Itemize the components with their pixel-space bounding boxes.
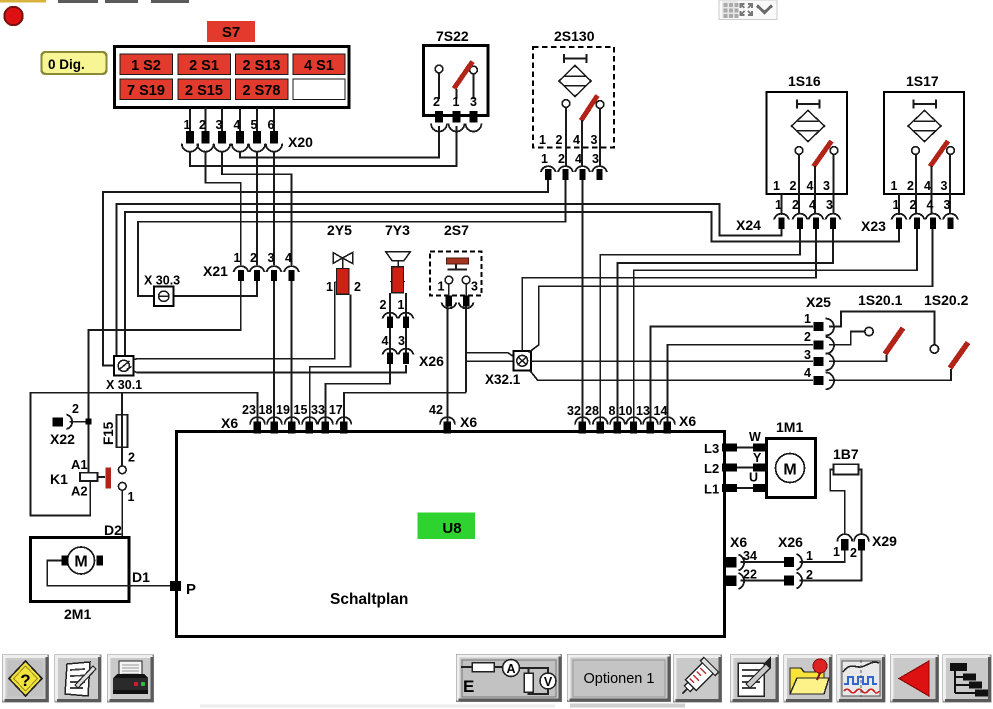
svg-text:D1: D1 bbox=[132, 569, 150, 585]
svg-text:X 30.1: X 30.1 bbox=[106, 378, 142, 392]
7Y3 pin labels 2 1 bbox=[380, 298, 405, 312]
svg-text:23: 23 bbox=[242, 403, 256, 417]
label D1 bbox=[132, 569, 150, 585]
wire X21.1 down to K1 branch bbox=[89, 281, 241, 472]
U8 terminal X6.22 bbox=[726, 568, 757, 590]
svg-text:1: 1 bbox=[539, 133, 546, 147]
1S17 actuator T bar bbox=[914, 100, 937, 109]
connector X20 pin 2 bbox=[197, 118, 213, 152]
toolbar button oscilloscope bbox=[837, 655, 885, 702]
label X6 bottom right bbox=[730, 534, 747, 550]
top toolbar strip gray button remnant 1 bbox=[58, 0, 98, 3]
label X30.1 bbox=[106, 378, 142, 392]
label X26 bottom bbox=[778, 534, 803, 550]
1M1 terminal Y bbox=[753, 451, 767, 472]
2S7 pin labels 1 3 bbox=[438, 280, 479, 294]
connector 7Y3 pin 1 bbox=[399, 313, 414, 328]
1S16 diamond symbol bbox=[792, 111, 825, 142]
wire X6.13 to X25.1 bbox=[651, 327, 814, 425]
wire X32.1 bottomright to X25.4 bbox=[529, 370, 813, 381]
wire L1 to 1M1.U bbox=[737, 487, 753, 489]
wire X26.4 to X6 pin33 bbox=[326, 364, 391, 424]
svg-text:17: 17 bbox=[329, 403, 343, 417]
7S22 red switch lever bbox=[454, 62, 473, 100]
svg-text:4: 4 bbox=[285, 251, 292, 265]
label X23 bbox=[861, 218, 886, 234]
svg-text:2S130: 2S130 bbox=[554, 28, 595, 44]
S7 cell 2S13 bbox=[236, 54, 289, 75]
wire X21.4 down to X6 pin19 bbox=[291, 281, 293, 424]
svg-text:7Y3: 7Y3 bbox=[385, 222, 410, 238]
U8 terminal X6.34 bbox=[726, 549, 757, 571]
svg-text:0 Dig.: 0 Dig. bbox=[48, 57, 85, 72]
X6 pin 15 bbox=[294, 403, 317, 434]
connector X26 pin 2 bottom bbox=[784, 568, 813, 589]
svg-text:W: W bbox=[749, 430, 761, 444]
svg-text:2: 2 bbox=[72, 402, 79, 416]
label 1S17 bbox=[906, 73, 939, 89]
wire 2Y5.2 to X6 pin15 bbox=[310, 295, 351, 425]
wire X20.2 to X21.1 bbox=[206, 152, 241, 265]
wire X32.1 right to X25.3 bbox=[531, 360, 813, 362]
wire X24.2 to X6 pin28 bbox=[600, 229, 800, 424]
connector X26 pin 1 bottom bbox=[784, 549, 813, 570]
svg-text:2: 2 bbox=[354, 280, 361, 294]
2S130 contact circle pin2 bbox=[562, 100, 570, 167]
connector X23 pin 3 bbox=[943, 214, 958, 229]
X6 pin 42 bbox=[429, 403, 455, 434]
svg-text:M: M bbox=[783, 462, 796, 479]
label A1 bbox=[71, 457, 88, 472]
svg-text:1: 1 bbox=[806, 549, 813, 563]
wire X20.5 to X21.2 bbox=[256, 152, 258, 265]
wire X6.22 to X26.2 bbox=[741, 580, 785, 582]
connector X24 pin 1 bbox=[774, 214, 789, 229]
svg-text:3: 3 bbox=[826, 198, 833, 212]
svg-text:D2: D2 bbox=[104, 522, 122, 538]
connector X20 pin 5 bbox=[249, 118, 265, 152]
wire X23.2 to X6 pin10 bbox=[634, 229, 917, 424]
svg-text:7S22: 7S22 bbox=[436, 28, 469, 44]
wire X30.1 to X26.3 via 7Y3 branch bbox=[134, 365, 407, 373]
svg-text:5: 5 bbox=[251, 118, 258, 132]
label 1S16 bbox=[788, 73, 821, 89]
svg-text:3: 3 bbox=[944, 198, 951, 212]
svg-text:2M1: 2M1 bbox=[64, 606, 91, 622]
svg-text:3: 3 bbox=[592, 152, 599, 166]
top toolbar strip gray button remnant 2 bbox=[105, 0, 138, 3]
svg-text:2Y5: 2Y5 bbox=[327, 222, 352, 238]
wire X20.6 to X21.3 bbox=[273, 152, 275, 265]
svg-text:15: 15 bbox=[294, 403, 308, 417]
wire L3 to 1M1.W bbox=[737, 447, 753, 449]
label X6 mid bbox=[460, 414, 477, 430]
wire X20.3 to X21.4 bbox=[222, 152, 292, 265]
switch 7S22 box bbox=[424, 46, 489, 116]
relay K1 contact circle 1 bbox=[118, 482, 134, 504]
svg-text:2: 2 bbox=[199, 118, 206, 132]
wire 2S7.1 to X6 pin42 bbox=[447, 307, 449, 425]
svg-text:L3: L3 bbox=[704, 441, 719, 456]
svg-text:1M1: 1M1 bbox=[776, 419, 803, 435]
label X22 bbox=[50, 431, 75, 447]
valve 2Y5 bowtie symbol bbox=[333, 253, 353, 269]
svg-text:1S20.2: 1S20.2 bbox=[924, 292, 969, 308]
1S16 pin1 stub bbox=[781, 194, 783, 215]
svg-text:Schaltplan: Schaltplan bbox=[330, 591, 408, 608]
wire X22 to K1 junction bbox=[70, 421, 89, 423]
X6 pin 18 bbox=[259, 403, 282, 434]
connector X26 pin 4 bbox=[383, 349, 398, 364]
motor 2M1 box bbox=[31, 537, 130, 601]
svg-text:33: 33 bbox=[311, 403, 325, 417]
X6 pin 14 bbox=[654, 404, 675, 434]
connector pin 2S7-1 bbox=[442, 296, 457, 309]
toolbar button syringe bbox=[674, 655, 722, 702]
svg-text:4: 4 bbox=[809, 198, 816, 212]
svg-text:13: 13 bbox=[636, 404, 650, 418]
svg-text:7 S19: 7 S19 bbox=[127, 83, 165, 99]
7S22 pin labels 2 1 3 bbox=[433, 95, 477, 109]
X6 pin 8 bbox=[609, 404, 625, 434]
U8 terminal L1 bbox=[722, 484, 737, 492]
label U8 green tag bbox=[418, 513, 476, 540]
label X24 bbox=[736, 217, 761, 233]
svg-text:X26: X26 bbox=[778, 534, 803, 550]
1S16 red switch lever bbox=[814, 141, 832, 213]
svg-text:22: 22 bbox=[743, 568, 757, 582]
svg-text:4: 4 bbox=[575, 152, 582, 166]
svg-text:2: 2 bbox=[804, 330, 811, 344]
7S22 contact circle pin3 bbox=[470, 66, 478, 99]
pressure switch 1S17 box bbox=[884, 92, 964, 194]
wire X24.3 to X6 pin8 bbox=[618, 229, 834, 424]
svg-text:2: 2 bbox=[128, 451, 135, 465]
svg-text:8: 8 bbox=[609, 404, 616, 418]
svg-text:1: 1 bbox=[541, 152, 548, 166]
svg-text:2: 2 bbox=[910, 198, 917, 212]
label X6 right group bbox=[679, 413, 696, 429]
svg-text:6: 6 bbox=[268, 118, 275, 132]
svg-text:2: 2 bbox=[792, 198, 799, 212]
svg-text:4: 4 bbox=[804, 366, 811, 380]
label 2S130 bbox=[554, 28, 595, 44]
svg-text:4: 4 bbox=[573, 133, 580, 147]
2S7 contact circle 1 bbox=[445, 276, 453, 297]
0 Dig. yellow indicator bbox=[42, 52, 107, 74]
svg-text:4: 4 bbox=[382, 334, 389, 348]
svg-text:4: 4 bbox=[927, 198, 934, 212]
connector X25 pin 2 bbox=[804, 330, 834, 354]
label X29 bbox=[872, 533, 897, 549]
connector pin 7S22-3 bbox=[466, 111, 482, 132]
1S16 contact circle pin2 bbox=[795, 147, 803, 213]
connector pin 2S130-3 bbox=[592, 166, 607, 180]
label 2S7 bbox=[444, 222, 469, 238]
wire bus3 X23.1 to X30.1 top bbox=[125, 212, 899, 356]
svg-text:M: M bbox=[74, 554, 87, 571]
svg-text:X6: X6 bbox=[460, 414, 477, 430]
connector pin 2S130-1 bbox=[541, 166, 556, 180]
connector pin 7S22-2 bbox=[431, 111, 447, 132]
svg-text:A2: A2 bbox=[71, 484, 88, 499]
wire X25.3 tail to 1S20.1 lever bbox=[829, 355, 887, 361]
red status circle bbox=[4, 7, 22, 25]
svg-text:1: 1 bbox=[773, 179, 780, 193]
2Y5 pin labels 1 2 bbox=[326, 280, 361, 294]
X6 pin 17 bbox=[329, 403, 351, 434]
svg-text:X29: X29 bbox=[872, 533, 897, 549]
valve 7Y3 funnel symbol bbox=[386, 252, 411, 268]
wire bus1 2S130.1 to X30.1 left bbox=[103, 180, 548, 366]
svg-text:U8: U8 bbox=[442, 520, 461, 537]
svg-text:32: 32 bbox=[567, 404, 581, 418]
2S130 inner pin labels 1 2 4 3 bbox=[539, 133, 598, 147]
connector X23 pin 2 bbox=[910, 214, 925, 229]
svg-text:1: 1 bbox=[184, 118, 191, 132]
wire X6.17 to X32.1 riser bbox=[344, 393, 466, 424]
wire X26.2 to X29.2 bbox=[800, 551, 862, 581]
svg-text:E: E bbox=[463, 677, 474, 696]
svg-text:X26: X26 bbox=[419, 353, 444, 369]
svg-text:34: 34 bbox=[743, 549, 757, 563]
X6 pin 28 bbox=[585, 404, 608, 434]
connector X22 pin 2 bbox=[53, 402, 80, 429]
svg-text:18: 18 bbox=[259, 403, 273, 417]
connector pin 2S130-2 bbox=[558, 166, 573, 180]
svg-text:1: 1 bbox=[804, 312, 811, 326]
svg-text:1B7: 1B7 bbox=[833, 446, 859, 462]
svg-text:1S16: 1S16 bbox=[788, 73, 821, 89]
svg-text:F15: F15 bbox=[101, 421, 116, 445]
top right widget box bbox=[719, 0, 777, 20]
connector X21 pin 4 bbox=[284, 251, 299, 281]
label 7S22 bbox=[436, 28, 469, 44]
svg-text:3: 3 bbox=[941, 179, 948, 193]
2S130 contact circle pin3 bbox=[596, 101, 604, 167]
svg-text:2S7: 2S7 bbox=[444, 222, 469, 238]
X6 pin 19 bbox=[276, 403, 299, 434]
S7 empty white cell bbox=[293, 79, 345, 100]
switch unit S7 outer box bbox=[115, 47, 350, 108]
7S22 contact circle pin2 bbox=[435, 65, 443, 99]
wire X6.34 to X26.1 bbox=[741, 561, 785, 563]
wire X25.4 tail to 1S20.2 lever bbox=[829, 369, 951, 380]
wire X26.1 to X29.1 bbox=[800, 551, 845, 563]
svg-text:3: 3 bbox=[591, 133, 598, 147]
connector X23 pin 1 bbox=[892, 214, 907, 229]
wire X21.3 down to X6 pin18 bbox=[273, 281, 275, 424]
svg-text:4: 4 bbox=[807, 179, 814, 193]
svg-text:14: 14 bbox=[654, 404, 668, 418]
fuse F15 bbox=[116, 393, 127, 466]
pressure switch 1S16 box bbox=[767, 92, 848, 194]
toolbar button notes bbox=[55, 655, 101, 702]
svg-text:4 S1: 4 S1 bbox=[304, 58, 334, 74]
connector X21 pin 3 bbox=[267, 251, 282, 281]
2S130 actuator T bar bbox=[564, 54, 587, 63]
top toolbar strip yellow remnant bbox=[0, 0, 46, 3]
connector X20 pin 6 bbox=[266, 118, 282, 152]
svg-text:3: 3 bbox=[804, 348, 811, 362]
S7 cell 4S1 bbox=[293, 54, 345, 75]
wire X6.14 to X25.2 bbox=[668, 345, 814, 424]
connector X20 pin 3 bbox=[214, 118, 230, 152]
ECU U8 box bbox=[177, 432, 725, 637]
svg-text:3: 3 bbox=[470, 95, 477, 109]
svg-text:A: A bbox=[506, 662, 515, 676]
X6 pin 10 bbox=[619, 404, 642, 434]
wire 1B7 left to X29.1 bbox=[830, 470, 845, 536]
svg-text:2: 2 bbox=[907, 179, 914, 193]
X6 pin 13 bbox=[636, 404, 658, 434]
svg-text:2: 2 bbox=[790, 179, 797, 193]
label K1 bbox=[50, 471, 68, 487]
label X20 bbox=[288, 134, 313, 150]
connector X24 pin 4 bbox=[809, 214, 824, 229]
svg-text:1 S2: 1 S2 bbox=[131, 58, 161, 74]
label D2 bbox=[104, 522, 122, 538]
connector pin 7S22-1 bbox=[449, 111, 465, 132]
wire L2 to 1M1.Y bbox=[737, 467, 753, 469]
connector X24 pin 3 bbox=[826, 214, 841, 229]
label 1M1 bbox=[776, 419, 803, 435]
motor 2M1 terminal right bbox=[97, 556, 104, 566]
solenoid coil 7Y3 bbox=[390, 267, 405, 293]
S7 cell 2S15 bbox=[178, 79, 231, 100]
wire X30.1 to 2Y5.1 bbox=[134, 282, 335, 360]
sensor 1B7 box bbox=[834, 464, 859, 474]
connector X26 pin 3 bbox=[399, 349, 414, 364]
connector pin 2S7-3 bbox=[459, 296, 474, 309]
thermo switch 2S7 dashed box bbox=[430, 252, 482, 296]
1S17 inner pin labels bbox=[891, 179, 948, 193]
splice X30.3 box bbox=[154, 287, 174, 307]
toolbar button folder bbox=[784, 655, 832, 702]
svg-text:K1: K1 bbox=[50, 471, 68, 487]
connector X29 pin 1 bbox=[833, 534, 852, 559]
label A2 bbox=[71, 484, 88, 499]
label 7Y3 bbox=[385, 222, 410, 238]
1S17 red switch lever bbox=[930, 141, 948, 213]
wire bus2 X24.1 to X30.1 top bbox=[117, 204, 782, 356]
svg-text:2 S1: 2 S1 bbox=[189, 58, 219, 74]
svg-text:S7: S7 bbox=[222, 24, 240, 41]
junction node X22/K1 bbox=[86, 419, 92, 425]
splice X30.1 box bbox=[114, 356, 134, 376]
top right grid icon bbox=[722, 1, 739, 18]
connector X21 pin 2 bbox=[250, 251, 265, 281]
label X6 left group bbox=[221, 415, 238, 431]
1S16 inner pin labels bbox=[773, 179, 830, 193]
wire X32.1 top to X24.4 bbox=[522, 229, 816, 351]
toolbar button back arrow bbox=[891, 655, 939, 702]
connector X25 pin 4 bbox=[804, 366, 834, 389]
connector X25 pin 3 bbox=[804, 348, 834, 370]
label X25 bbox=[806, 294, 831, 310]
svg-text:19: 19 bbox=[276, 403, 290, 417]
label 1B7 bbox=[833, 446, 859, 462]
svg-text:X6: X6 bbox=[730, 534, 747, 550]
svg-text:P: P bbox=[186, 581, 196, 598]
X6 pin 32 bbox=[567, 404, 590, 434]
toolbar button tree view bbox=[943, 655, 991, 702]
2S130 outer pin labels 1 2 4 3 bbox=[541, 152, 599, 166]
svg-text:1: 1 bbox=[234, 251, 241, 265]
connector X24 pin 2 bbox=[793, 214, 808, 229]
wire X32.1 topright to X23.4 bbox=[529, 229, 933, 353]
connector X21 pin 1 bbox=[234, 251, 249, 281]
wire 2S130.4 to X6 pin32 bbox=[582, 180, 584, 424]
1S17 pin1 stub bbox=[898, 194, 900, 215]
relay K1 red actuator bar bbox=[106, 468, 112, 489]
svg-text:28: 28 bbox=[585, 404, 599, 418]
connector pin 2S130-4 bbox=[575, 166, 590, 180]
top right chevron-down icon bbox=[757, 6, 772, 13]
label L2 bbox=[704, 461, 719, 476]
label 2M1 bbox=[64, 606, 91, 622]
motor 1M1 M circle bbox=[776, 454, 805, 483]
svg-text:A1: A1 bbox=[71, 457, 88, 472]
switch 1S20.2 contact circle bbox=[930, 345, 938, 353]
wire stubs S7 box to X20 pins bbox=[190, 108, 274, 132]
wire K1 contact to 2M1 motor bbox=[104, 490, 123, 560]
connector X23 pin 4 bbox=[926, 214, 941, 229]
svg-text:X6: X6 bbox=[221, 415, 238, 431]
svg-text:X23: X23 bbox=[861, 218, 886, 234]
2S130 diamond symbol bbox=[559, 66, 591, 97]
svg-text:42: 42 bbox=[429, 403, 443, 417]
S7 cell 1S2 bbox=[120, 54, 173, 75]
toolbar button document pen bbox=[731, 655, 779, 702]
svg-text:1S17: 1S17 bbox=[906, 73, 939, 89]
1S16 contact circle pin3 bbox=[830, 147, 838, 213]
wire 7Y3.2 down through X26 bbox=[389, 293, 391, 355]
toolbar button help bbox=[3, 655, 49, 702]
U8 terminal L3 bbox=[722, 444, 737, 452]
label Schaltplan bbox=[330, 591, 408, 608]
svg-text:2: 2 bbox=[850, 546, 857, 560]
relay K1 contact circle 2 bbox=[118, 451, 135, 474]
svg-text:3: 3 bbox=[823, 179, 830, 193]
svg-text:U: U bbox=[749, 471, 758, 485]
label X30.3 bbox=[144, 274, 180, 288]
svg-text:Y: Y bbox=[753, 451, 762, 465]
wire bus4 2S130.2 to X30.3 and X21.2 bbox=[138, 180, 566, 296]
svg-text:X32.1: X32.1 bbox=[485, 372, 521, 387]
svg-text:1: 1 bbox=[398, 298, 405, 312]
1M1 terminal W bbox=[749, 430, 767, 452]
svg-text:V: V bbox=[544, 675, 553, 689]
toolbar button measurement circuit bbox=[457, 655, 562, 702]
svg-text:X25: X25 bbox=[806, 294, 831, 310]
label 1S20.2 bbox=[924, 292, 969, 308]
solenoid coil 2Y5 bbox=[335, 269, 349, 295]
2S7 contact circle 3 bbox=[462, 276, 470, 297]
svg-text:2 S15: 2 S15 bbox=[185, 83, 223, 99]
S7 cell 2S1 bbox=[178, 54, 231, 75]
svg-text:X20: X20 bbox=[288, 134, 313, 150]
svg-text:2 S13: 2 S13 bbox=[243, 58, 281, 74]
top right expand icon bbox=[741, 4, 753, 15]
wire 1B7 right to X29.2 bbox=[858, 470, 861, 536]
connector 7Y3 pin 2 bbox=[383, 313, 398, 328]
svg-text:1: 1 bbox=[326, 280, 333, 294]
label F15 rotated bbox=[101, 421, 116, 445]
wire X20.4 to 7S22.2 bbox=[240, 126, 439, 158]
svg-text:2: 2 bbox=[380, 298, 387, 312]
1S16 actuator T bar bbox=[797, 100, 820, 109]
